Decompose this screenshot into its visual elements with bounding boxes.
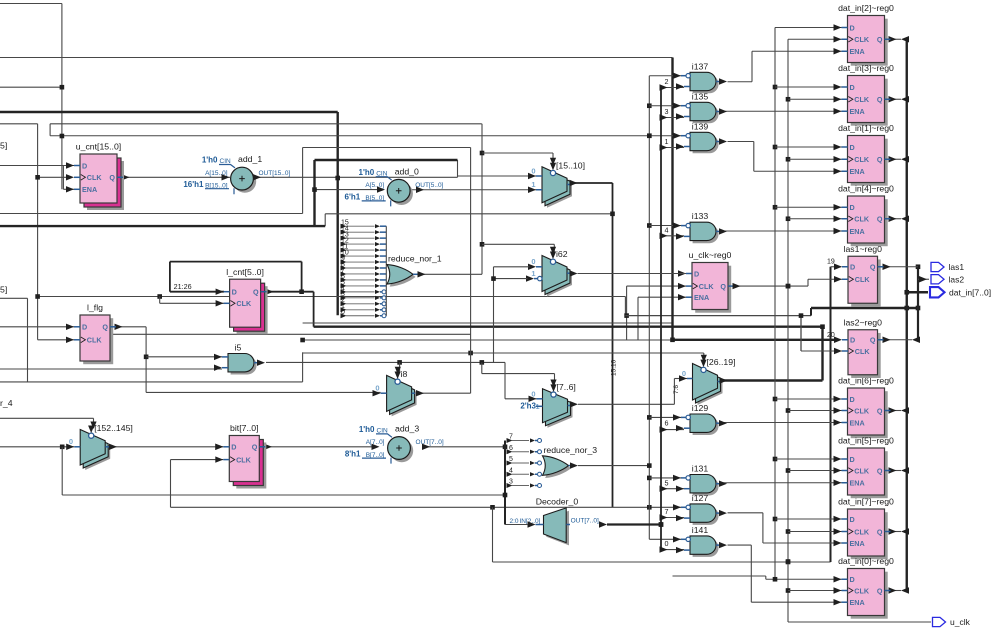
svg-text:reduce_nor_1: reduce_nor_1 (388, 254, 442, 264)
svg-text:add_1: add_1 (238, 154, 262, 164)
svg-text:D: D (82, 161, 87, 170)
svg-text:3: 3 (665, 107, 669, 116)
svg-text:CLK: CLK (854, 586, 870, 595)
svg-text:CLK: CLK (854, 527, 870, 536)
svg-text:OUT[15..0]: OUT[15..0] (259, 170, 291, 177)
svg-text:Q: Q (877, 586, 883, 595)
svg-text:2:0: 2:0 (510, 518, 519, 525)
svg-text:ENA: ENA (850, 418, 865, 427)
svg-text:5: 5 (665, 479, 669, 488)
svg-text:CLK: CLK (236, 456, 252, 465)
svg-text:D: D (850, 203, 855, 212)
svg-text:21:26: 21:26 (174, 282, 192, 291)
svg-text:[152..145]: [152..145] (94, 423, 133, 433)
svg-text:0: 0 (682, 369, 686, 378)
svg-text:i5: i5 (235, 343, 242, 353)
svg-text:0: 0 (341, 309, 345, 316)
svg-text:CLK: CLK (854, 95, 870, 104)
svg-text:D: D (850, 23, 855, 32)
svg-text:ENA: ENA (850, 479, 865, 488)
svg-text:D: D (850, 83, 855, 92)
svg-text:i62: i62 (556, 249, 568, 259)
svg-text:3: 3 (509, 479, 513, 486)
svg-text:Q: Q (102, 323, 108, 332)
svg-text:D: D (850, 143, 855, 152)
svg-text:Q: Q (870, 336, 876, 345)
svg-text:i139: i139 (692, 121, 709, 131)
svg-text:6'h1: 6'h1 (345, 192, 361, 201)
svg-text:Q: Q (877, 215, 883, 224)
svg-text:u_cnt[15..0]: u_cnt[15..0] (76, 142, 121, 152)
svg-text:CLK: CLK (854, 406, 870, 415)
svg-text:CLK: CLK (855, 275, 871, 284)
svg-text:0: 0 (531, 389, 535, 398)
svg-text:D: D (850, 263, 855, 272)
svg-text:CLK: CLK (854, 35, 870, 44)
svg-text:Q: Q (877, 95, 883, 104)
svg-text:7:6: 7:6 (673, 385, 680, 394)
svg-text:CLK: CLK (854, 155, 870, 164)
svg-text:l_flg: l_flg (87, 303, 103, 313)
svg-text:B[5..0]: B[5..0] (365, 195, 384, 202)
svg-text:i135: i135 (692, 91, 709, 101)
svg-text:i137: i137 (692, 61, 709, 71)
svg-text:CLK: CLK (87, 173, 103, 182)
svg-text:i127: i127 (692, 493, 709, 503)
svg-text:CIN: CIN (377, 428, 389, 435)
svg-text:16'h1: 16'h1 (183, 180, 204, 189)
svg-text:D: D (231, 443, 236, 452)
svg-text:2: 2 (665, 77, 669, 86)
svg-text:i131: i131 (692, 464, 709, 474)
svg-text:las2~reg0: las2~reg0 (844, 317, 883, 327)
svg-text:CLK: CLK (236, 299, 252, 308)
svg-text:1: 1 (665, 137, 669, 146)
svg-text:l_cnt[5..0]: l_cnt[5..0] (226, 267, 264, 277)
svg-text:Q: Q (877, 35, 883, 44)
svg-text:7: 7 (665, 507, 669, 516)
svg-text:CLK: CLK (855, 347, 871, 356)
svg-text:6: 6 (665, 418, 669, 427)
svg-text:dat_in[0]~reg0: dat_in[0]~reg0 (838, 556, 894, 566)
svg-text:las1~reg0: las1~reg0 (844, 244, 883, 254)
svg-text:D: D (232, 288, 237, 297)
svg-text:0: 0 (531, 257, 535, 266)
svg-text:OUT[7..0]: OUT[7..0] (571, 517, 599, 524)
svg-text:D: D (694, 269, 699, 278)
svg-text:19: 19 (827, 259, 835, 266)
svg-text:5: 5 (509, 456, 513, 463)
svg-text:u_clk: u_clk (950, 617, 971, 627)
svg-text:i141: i141 (692, 525, 709, 535)
svg-text:dat_in[7]~reg0: dat_in[7]~reg0 (838, 497, 894, 507)
svg-text:ENA: ENA (694, 293, 709, 302)
svg-text:D: D (850, 395, 855, 404)
svg-text:Q: Q (252, 443, 258, 452)
svg-text:Q: Q (109, 173, 115, 182)
svg-text:2'h3: 2'h3 (520, 402, 536, 411)
svg-text:Q: Q (877, 527, 883, 536)
svg-text:15:10: 15:10 (611, 359, 618, 376)
svg-text:0: 0 (531, 166, 535, 175)
svg-text:8'h1: 8'h1 (345, 450, 361, 459)
svg-text:add_3: add_3 (395, 424, 419, 434)
svg-text:ENA: ENA (82, 185, 97, 194)
svg-text:B[7..0]: B[7..0] (366, 452, 385, 459)
svg-text:[15..10]: [15..10] (556, 160, 585, 170)
svg-text:4: 4 (509, 467, 513, 474)
svg-text:bit[7..0]: bit[7..0] (230, 423, 259, 433)
svg-text:dat_in[1]~reg0: dat_in[1]~reg0 (838, 123, 894, 133)
svg-text:Q: Q (877, 155, 883, 164)
svg-text:r_4: r_4 (0, 398, 13, 408)
svg-text:las2: las2 (949, 274, 965, 284)
svg-text:dat_in[4]~reg0: dat_in[4]~reg0 (838, 184, 894, 194)
svg-text:las1: las1 (949, 262, 965, 272)
svg-text:1: 1 (531, 269, 535, 278)
svg-text:dat_in[5]~reg0: dat_in[5]~reg0 (838, 436, 894, 446)
svg-text:A[5..0]: A[5..0] (365, 182, 384, 189)
svg-text:CLK: CLK (699, 282, 715, 291)
svg-text:20: 20 (827, 332, 835, 339)
svg-text:reduce_nor_3: reduce_nor_3 (544, 445, 598, 455)
svg-text:ENA: ENA (850, 227, 865, 236)
svg-text:5]: 5] (0, 141, 7, 151)
svg-text:dat_in[3]~reg0: dat_in[3]~reg0 (838, 63, 894, 73)
svg-text:Q: Q (877, 406, 883, 415)
svg-text:Q: Q (720, 282, 726, 291)
svg-text:CLK: CLK (87, 336, 103, 345)
svg-text:Q: Q (870, 263, 876, 272)
svg-text:i129: i129 (692, 403, 709, 413)
svg-text:6: 6 (509, 445, 513, 452)
svg-text:i8: i8 (401, 369, 408, 379)
svg-text:CLK: CLK (854, 215, 870, 224)
svg-text:CIN: CIN (376, 170, 388, 177)
svg-text:ENA: ENA (850, 107, 865, 116)
svg-text:1'h0: 1'h0 (359, 168, 375, 177)
svg-text:0: 0 (69, 437, 73, 446)
svg-text:CLK: CLK (854, 466, 870, 475)
svg-text:dat_in[2]~reg0: dat_in[2]~reg0 (838, 3, 894, 13)
svg-text:Decoder_0: Decoder_0 (536, 497, 579, 507)
svg-text:D: D (850, 575, 855, 584)
svg-text:D: D (850, 336, 855, 345)
svg-text:ENA: ENA (850, 598, 865, 607)
svg-text:[7..6]: [7..6] (557, 382, 576, 392)
svg-text:add_0: add_0 (395, 166, 419, 176)
svg-text:1'h0: 1'h0 (202, 156, 218, 165)
svg-text:0: 0 (665, 539, 669, 548)
svg-text:7: 7 (509, 434, 513, 441)
svg-text:u_clk~reg0: u_clk~reg0 (689, 250, 732, 260)
svg-text:1'h0: 1'h0 (359, 425, 375, 434)
svg-text:[26..19]: [26..19] (707, 357, 736, 367)
svg-text:Q: Q (253, 288, 259, 297)
svg-text:4: 4 (665, 226, 669, 235)
svg-text:ENA: ENA (850, 47, 865, 56)
svg-text:5]: 5] (0, 285, 7, 295)
svg-text:OUT[7..0]: OUT[7..0] (416, 439, 444, 446)
svg-text:i133: i133 (692, 211, 709, 221)
svg-text:1: 1 (531, 180, 535, 189)
svg-text:D: D (82, 323, 87, 332)
svg-text:D: D (850, 455, 855, 464)
svg-text:0: 0 (375, 383, 379, 392)
svg-text:dat_in[7..0]: dat_in[7..0] (949, 287, 991, 297)
svg-text:ENA: ENA (850, 167, 865, 176)
svg-text:B[15..0]: B[15..0] (205, 183, 228, 190)
svg-text:ENA: ENA (850, 539, 865, 548)
svg-text:CIN: CIN (220, 158, 232, 165)
svg-text:Q: Q (877, 466, 883, 475)
svg-text:D: D (850, 515, 855, 524)
